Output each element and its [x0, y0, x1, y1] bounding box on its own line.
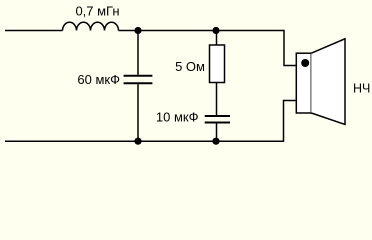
wire top-left input: [5, 30, 63, 32]
svg-text:НЧ: НЧ: [353, 82, 370, 96]
svg-text:0,7 мГн: 0,7 мГн: [75, 4, 119, 19]
resistor R1 5 Ohm: [210, 45, 225, 83]
svg-text:5 Ом: 5 Ом: [175, 59, 205, 74]
capacitor C2 10uF: [205, 116, 230, 123]
node speaker polarity dot: [301, 59, 309, 67]
wire R1 to C2: [216, 83, 218, 116]
wire bottom riser to speaker: [284, 101, 297, 142]
wire top rail from inductor to right corner: [119, 30, 285, 32]
inductor L1 0.7mH: [63, 22, 119, 30]
speaker LS1 body: [296, 53, 311, 113]
node junction bottom of C2: [212, 138, 219, 145]
node junction bottom of C1: [134, 138, 141, 145]
speaker LS1 horn: [311, 39, 345, 125]
svg-text:10 мкФ: 10 мкФ: [156, 110, 199, 125]
wire bottom rail: [5, 140, 284, 142]
wire R1 top lead: [216, 31, 218, 46]
capacitor C1 60uF: [124, 76, 153, 84]
svg-text:60 мкФ: 60 мкФ: [77, 72, 120, 87]
node junction top of C1: [134, 27, 141, 34]
wire top riser to speaker: [284, 30, 297, 66]
wire C2 bottom lead: [216, 124, 218, 142]
wire C1 bottom lead: [137, 84, 139, 141]
node junction top of R1: [212, 27, 219, 34]
wire C1 top lead: [137, 31, 139, 75]
